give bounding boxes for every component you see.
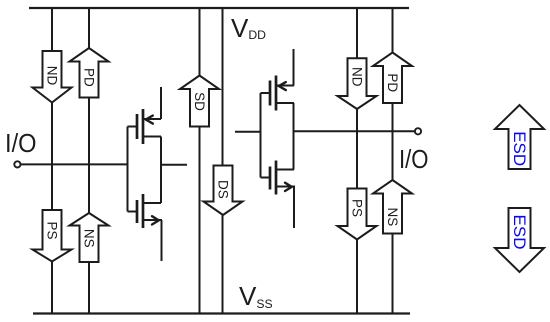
M4 gate bar — [269, 167, 272, 190]
wire right PD/NS column — [392, 8, 394, 314]
diode path arrow NS (left, up) — [70, 213, 109, 262]
wire right ND/PS column — [356, 8, 358, 314]
svg-text:ESD: ESD — [510, 215, 529, 250]
M2 source arrow — [152, 216, 159, 224]
M3 gate bar — [269, 81, 272, 106]
svg-text:SD: SD — [192, 92, 207, 111]
svg-text:DS: DS — [216, 180, 231, 199]
M4 source stub — [293, 187, 295, 229]
wire left drain line — [160, 137, 162, 204]
M2 channel bar — [142, 194, 145, 228]
svg-text:ND: ND — [350, 67, 365, 87]
M2 source lead — [143, 219, 162, 221]
transistor M2 (left NMOS) — [128, 194, 163, 261]
M3 gate lead — [261, 92, 271, 94]
M3 channel bar — [275, 76, 278, 111]
M2 gate bar — [136, 200, 139, 223]
diode path arrow NS (right, up) — [373, 180, 412, 234]
M1 gate bar — [136, 114, 139, 139]
wire right gate line — [260, 93, 262, 178]
wire left I/O to gates — [21, 163, 128, 165]
VDD rail — [29, 7, 409, 9]
M3 source stub — [293, 49, 295, 86]
svg-text:VDD: VDD — [231, 13, 266, 43]
wire left gate line — [127, 127, 129, 212]
svg-text:VSS: VSS — [239, 281, 273, 311]
svg-text:I/O: I/O — [5, 128, 37, 158]
svg-text:ND: ND — [45, 66, 60, 86]
transistor M3 (right PMOS) — [261, 49, 295, 111]
M3 source lead — [276, 85, 294, 87]
M4 source arrow — [285, 183, 292, 191]
transistor M4 (right NMOS) — [261, 161, 296, 229]
ESD arrow down — [495, 208, 544, 272]
wire right drain to I/O — [294, 130, 415, 132]
M1 source arrow — [146, 116, 153, 124]
diode path arrow ND (right, down) — [338, 58, 377, 109]
svg-text:NS: NS — [385, 208, 400, 227]
svg-text:PD: PD — [385, 73, 400, 92]
M2 drain lead — [143, 202, 161, 204]
M4 drain lead — [276, 169, 294, 171]
M1 gate lead — [128, 126, 138, 128]
ESD arrow up — [495, 105, 544, 169]
wire DS column — [222, 8, 224, 314]
diode path arrow PS (right, down) — [338, 189, 377, 240]
M4 source lead — [276, 186, 295, 188]
wire left PD/NS column — [88, 8, 90, 314]
svg-text:I/O: I/O — [399, 144, 429, 174]
wire left drain stub — [160, 164, 187, 166]
node right I/O terminal — [415, 128, 421, 134]
svg-text:ESD: ESD — [510, 131, 529, 166]
wire right drain line — [293, 103, 295, 170]
M1 drain lead — [143, 136, 161, 138]
node left I/O terminal — [14, 161, 20, 167]
path arrow DS (center, down) — [204, 166, 243, 216]
M4 channel bar — [275, 161, 278, 195]
wire left ND/PS column — [51, 8, 53, 314]
diode path arrow PD (right, up) — [373, 53, 412, 104]
M2 gate lead — [128, 211, 138, 213]
wire SD column — [199, 8, 201, 314]
svg-text:NS: NS — [82, 229, 97, 248]
diode path arrow PD (left, up) — [70, 48, 109, 98]
VSS rail — [33, 312, 410, 314]
M3 drain lead — [276, 102, 294, 104]
M2 source stub — [161, 220, 163, 261]
M1 channel bar — [142, 109, 145, 144]
path arrow SD (center, up) — [180, 76, 219, 127]
diode path arrow PS (left, down) — [33, 210, 72, 262]
diode path arrow ND (left, down) — [33, 51, 72, 103]
M1 source lead — [143, 118, 161, 120]
M4 gate lead — [261, 177, 271, 179]
M1 source stub — [160, 87, 162, 119]
wire right gate stub — [235, 131, 261, 133]
svg-text:PS: PS — [350, 199, 365, 217]
svg-text:PS: PS — [45, 221, 60, 239]
M3 source arrow — [279, 82, 286, 90]
svg-text:PD: PD — [82, 68, 97, 87]
transistor M1 (left PMOS) — [128, 87, 162, 144]
